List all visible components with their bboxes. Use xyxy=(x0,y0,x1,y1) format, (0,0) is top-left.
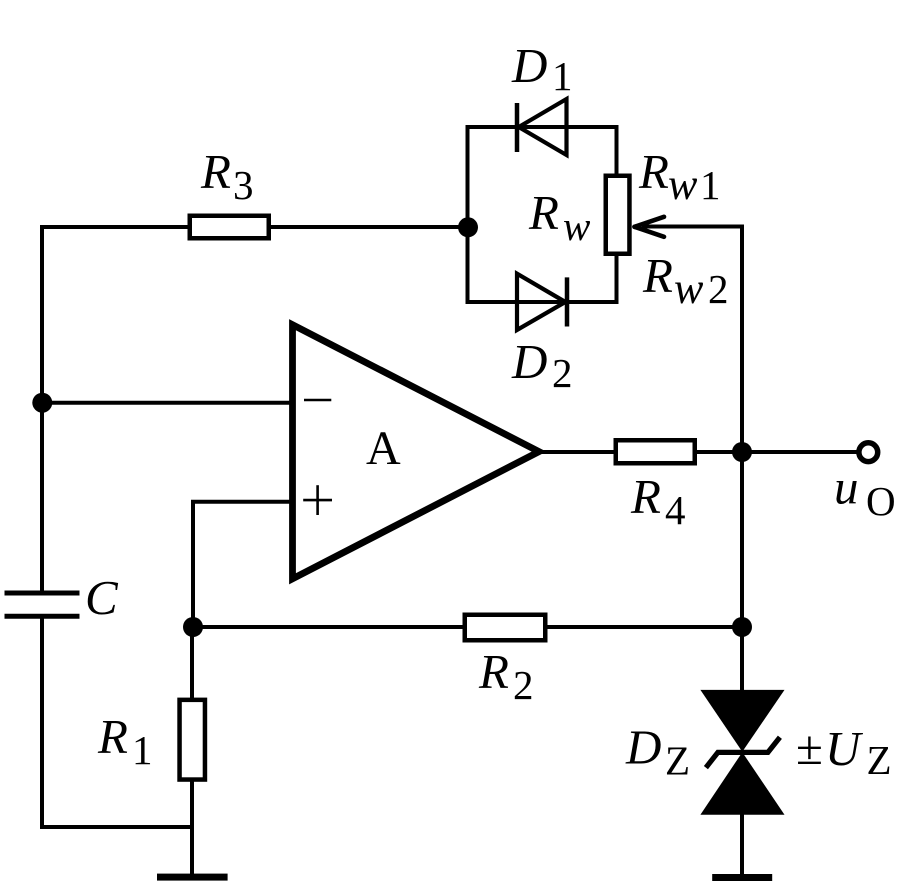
svg-text:C: C xyxy=(85,570,119,625)
svg-text:1: 1 xyxy=(700,162,721,208)
svg-text:Z: Z xyxy=(665,738,690,784)
svg-text:U: U xyxy=(825,721,864,776)
svg-text:Z: Z xyxy=(867,737,892,783)
svg-text:R: R xyxy=(638,144,669,199)
svg-text:4: 4 xyxy=(665,487,686,533)
svg-text:3: 3 xyxy=(233,162,254,208)
svg-text:2: 2 xyxy=(513,662,534,708)
svg-text:A: A xyxy=(366,422,401,475)
svg-text:R: R xyxy=(200,144,231,199)
svg-text:±: ± xyxy=(796,720,823,775)
svg-text:2: 2 xyxy=(708,266,729,312)
svg-text:D: D xyxy=(625,720,661,775)
svg-text:R: R xyxy=(97,709,128,764)
svg-text:u: u xyxy=(834,460,859,515)
svg-text:1: 1 xyxy=(132,727,153,773)
svg-text:w: w xyxy=(668,160,698,209)
svg-text:D: D xyxy=(511,38,547,93)
svg-text:D: D xyxy=(511,334,547,389)
svg-text:R: R xyxy=(528,185,559,240)
svg-text:w: w xyxy=(674,264,704,313)
svg-text:O: O xyxy=(866,478,896,524)
svg-text:2: 2 xyxy=(552,350,573,396)
svg-text:R: R xyxy=(630,469,661,524)
svg-text:R: R xyxy=(642,248,673,303)
svg-text:R: R xyxy=(478,644,509,699)
svg-text:w: w xyxy=(563,203,591,249)
svg-text:1: 1 xyxy=(552,53,573,99)
